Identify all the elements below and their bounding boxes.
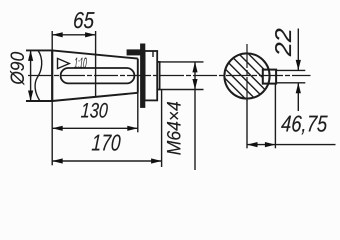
svg-text:46,75: 46,75: [281, 111, 329, 137]
taper start edge: [51, 50, 53, 101]
dim 130 line: [52, 127, 138, 129]
dim 170 arrow right: [151, 158, 162, 163]
dim M64x4 ext top: [160, 61, 204, 63]
dim 170 line: [52, 160, 161, 162]
washer tab: [127, 50, 141, 55]
svg-text:65: 65: [72, 7, 95, 33]
dim M64x4 arrow down: [192, 79, 197, 90]
dim M64x4 line: [194, 62, 196, 170]
dim 46,75 arrow right: [265, 142, 276, 147]
section circle outline: [224, 53, 269, 98]
dim 22 ext bottom: [276, 82, 305, 84]
keyway slot: [61, 68, 135, 83]
dim 65 ext left: [51, 31, 53, 50]
svg-text:170: 170: [91, 130, 122, 156]
dim 22 line upper: [297, 29, 299, 71]
dim 46,75 arrow left: [247, 142, 258, 147]
washer: [141, 44, 145, 107]
thread stub: [157, 62, 159, 90]
svg-text:M64×4: M64×4: [164, 101, 186, 155]
dim 90 arrow down: [28, 91, 33, 102]
dim 130 arrow right: [127, 126, 138, 131]
taper symbol triangle: [58, 58, 70, 68]
dim 46,75 line: [247, 144, 336, 146]
svg-text:1:10: 1:10: [74, 55, 88, 72]
taper top edge: [52, 50, 138, 58]
dim 46,75 ext right: [274, 85, 276, 149]
dim 22 ext top: [276, 69, 305, 71]
dim 65 arrow right: [85, 32, 96, 37]
nut slot top: [152, 51, 154, 57]
taper bottom edge: [52, 93, 138, 101]
dim 130 ext left / 170 shared: [51, 101, 53, 165]
dim 65 arrow left: [52, 32, 63, 37]
section circle vertical centerline: [246, 44, 248, 102]
dim M64x4 arrow up: [192, 62, 197, 73]
dim 130 ext right: [137, 93, 139, 133]
dim M64x4 ext bottom: [160, 89, 204, 91]
dim 22 line lower: [297, 83, 299, 111]
key cross-section: [263, 70, 276, 84]
svg-text:130: 130: [80, 100, 108, 123]
shaft cylinder top edge: [26, 49, 53, 51]
dim 170 ext right: [161, 90, 163, 167]
break line: [35, 50, 42, 101]
dim 170 arrow left: [52, 158, 63, 163]
svg-text:22: 22: [270, 28, 296, 57]
dim 22 arrow down: [296, 60, 301, 71]
dim 65 line: [52, 34, 95, 36]
nut: [145, 51, 158, 100]
dim 65 ext right: [95, 31, 97, 96]
dim 90 line: [30, 50, 32, 101]
dim 22 arrow up: [296, 83, 301, 94]
shaft cylinder bottom edge: [26, 100, 53, 102]
svg-text:Ø90: Ø90: [7, 52, 29, 86]
dim 130 arrow left: [52, 126, 63, 131]
section circle hatching: [210, 6, 290, 163]
dim 90 arrow up: [28, 50, 33, 61]
taper end edge: [137, 59, 139, 93]
centerline main axis: [28, 75, 311, 77]
